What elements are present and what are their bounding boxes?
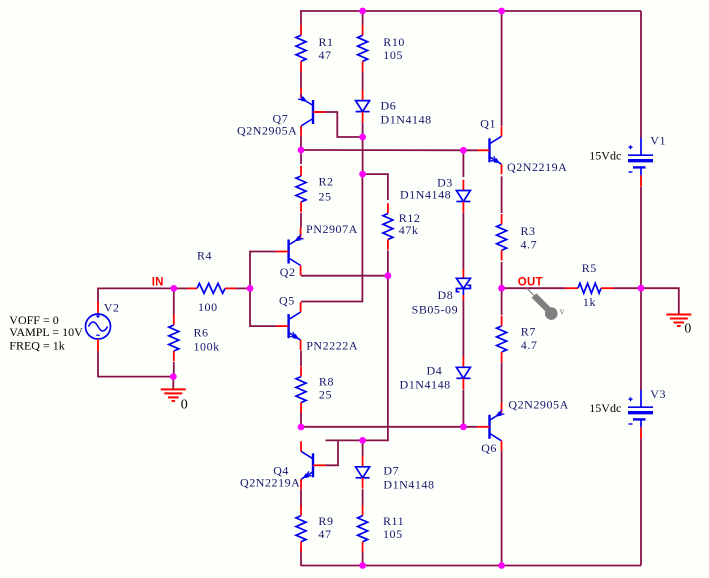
svg-text:R4: R4 bbox=[197, 248, 212, 262]
svg-text:R10: R10 bbox=[383, 35, 405, 49]
wire node to Q4 base net bbox=[326, 276, 388, 441]
svg-text:D1N4148: D1N4148 bbox=[381, 113, 432, 127]
svg-text:D8: D8 bbox=[438, 288, 454, 302]
wire Q7 base to D6 node bbox=[314, 112, 363, 137]
svg-text:15Vdc: 15Vdc bbox=[589, 149, 621, 163]
svg-text:D1N4148: D1N4148 bbox=[383, 478, 434, 492]
svg-text:47: 47 bbox=[319, 48, 332, 62]
voltage probe at OUT bbox=[527, 289, 534, 296]
wire D7 to R11 bbox=[362, 489, 364, 507]
diode D8 (schottky) bbox=[462, 269, 464, 278]
svg-text:R1: R1 bbox=[319, 35, 334, 49]
svg-text:R11: R11 bbox=[383, 514, 404, 528]
svg-text:Q2N2905A: Q2N2905A bbox=[508, 398, 568, 412]
source V2 (sine) bbox=[97, 302, 99, 315]
wire R6 to ground node bbox=[173, 362, 175, 377]
junction node 3 bbox=[170, 285, 177, 292]
wire D6 to node bbox=[362, 123, 364, 138]
svg-text:47: 47 bbox=[318, 527, 331, 541]
svg-text:R3: R3 bbox=[521, 224, 536, 238]
wire D3 to D8 bbox=[462, 213, 464, 270]
svg-text:R9: R9 bbox=[318, 514, 333, 528]
wire IN node to R4 bbox=[174, 287, 188, 289]
junction node 2 bbox=[498, 8, 505, 15]
wire V2 top to IN node bbox=[98, 288, 174, 301]
svg-text:D7: D7 bbox=[383, 464, 399, 478]
wire top rail bbox=[301, 10, 641, 12]
svg-text:IN: IN bbox=[152, 276, 164, 288]
wire R12 bottom to node bbox=[387, 251, 389, 276]
svg-text:25: 25 bbox=[319, 388, 332, 402]
svg-text:V2: V2 bbox=[104, 301, 120, 315]
wire D4 to Q6 base node bbox=[462, 390, 464, 427]
svg-text:FREQ = 1k: FREQ = 1k bbox=[9, 338, 64, 352]
wire R7 to Q6 emitter bbox=[501, 363, 503, 403]
svg-text:Q5: Q5 bbox=[279, 294, 295, 308]
svg-text:15Vdc: 15Vdc bbox=[589, 401, 621, 415]
svg-text:VAMPL = 10V: VAMPL = 10V bbox=[9, 325, 83, 339]
transistor Q5 bbox=[287, 314, 289, 338]
svg-text:Q2N2219A: Q2N2219A bbox=[240, 476, 300, 490]
svg-text:OUT: OUT bbox=[518, 276, 543, 288]
resistor R12 bbox=[387, 203, 389, 213]
svg-text:Q2: Q2 bbox=[280, 265, 296, 279]
resistor R10 bbox=[362, 25, 364, 35]
svg-text:R5: R5 bbox=[582, 261, 597, 275]
resistor R11 bbox=[362, 505, 364, 515]
svg-text:4.7: 4.7 bbox=[521, 338, 538, 352]
wire D3 top stub bbox=[462, 150, 464, 177]
resistor R3 bbox=[501, 214, 503, 224]
wire Q2 collector run bbox=[301, 275, 388, 277]
ground left bbox=[161, 388, 186, 390]
resistor R5 bbox=[565, 287, 578, 289]
svg-text:PN2222A: PN2222A bbox=[306, 339, 358, 353]
transistor Q1 bbox=[488, 138, 490, 162]
svg-text:D1N4148: D1N4148 bbox=[400, 378, 451, 392]
wire Q4 emitter to R9 bbox=[300, 490, 302, 508]
svg-text:SB05-09: SB05-09 bbox=[412, 302, 459, 316]
junction node 17 bbox=[498, 562, 505, 569]
svg-text:0: 0 bbox=[685, 320, 692, 335]
wire R8 to Q4 node bbox=[300, 411, 302, 427]
junction node 10 bbox=[460, 147, 467, 154]
wire right rail upper bbox=[640, 11, 642, 138]
resistor R8 bbox=[300, 366, 302, 376]
junction node 15 bbox=[638, 285, 645, 292]
svg-text:v: v bbox=[560, 307, 566, 318]
wire Q5 collector run bbox=[301, 174, 362, 301]
wire V2 bottom to ground node bbox=[98, 351, 173, 377]
svg-text:D6: D6 bbox=[381, 99, 397, 113]
svg-text:D1N4148: D1N4148 bbox=[400, 187, 451, 201]
svg-text:Q1: Q1 bbox=[480, 116, 496, 130]
wire Q4 base riser bbox=[326, 440, 339, 465]
svg-text:100k: 100k bbox=[194, 340, 220, 354]
svg-text:Q6: Q6 bbox=[481, 441, 497, 455]
wire bottom rail bbox=[301, 565, 641, 567]
svg-text:R6: R6 bbox=[194, 325, 209, 339]
wire node to R2 bbox=[300, 150, 302, 164]
resistor R6 bbox=[173, 315, 175, 325]
svg-text:Q2N2219A: Q2N2219A bbox=[507, 160, 567, 174]
wire Q4 node to Q6 base bbox=[301, 426, 477, 428]
junction node 5 bbox=[170, 373, 177, 380]
junction node 16 bbox=[359, 562, 366, 569]
wire mid node to V3 bbox=[640, 288, 642, 390]
wire ground stub left bbox=[172, 377, 174, 390]
diode D7 bbox=[362, 456, 364, 467]
wire R10 to D6 bbox=[362, 70, 364, 90]
svg-text:105: 105 bbox=[383, 48, 403, 62]
battery V3 bbox=[640, 390, 642, 408]
svg-text:R7: R7 bbox=[521, 324, 536, 338]
wire Q7 node to Q1 base bbox=[301, 149, 477, 151]
wire R4 to Q2/Q5 node bbox=[236, 287, 250, 289]
wire Q7 collector to node bbox=[300, 136, 302, 150]
svg-text:R8: R8 bbox=[319, 375, 334, 389]
junction node 14 bbox=[498, 285, 505, 292]
svg-text:D4: D4 bbox=[427, 364, 443, 378]
wire R12 branch bbox=[363, 174, 388, 200]
wire V3 to bottom rail bbox=[640, 439, 642, 566]
wire OUT node to R7 bbox=[501, 288, 503, 315]
transistor Q6 bbox=[488, 415, 490, 439]
diode D3 bbox=[462, 180, 464, 191]
junction node 4 bbox=[247, 285, 254, 292]
svg-text:Q2N2905A: Q2N2905A bbox=[237, 124, 297, 138]
wire mid node to right ground bbox=[641, 288, 679, 314]
wire D8 to D4 bbox=[462, 300, 464, 357]
wire rail to R10 bbox=[362, 10, 364, 25]
svg-text:105: 105 bbox=[383, 527, 403, 541]
svg-text:25: 25 bbox=[319, 190, 332, 204]
wire R5 to mid node bbox=[614, 287, 641, 289]
resistor R7 bbox=[501, 316, 503, 326]
wire Q1 emitter to R3 bbox=[501, 176, 503, 213]
transistor Q2 bbox=[287, 240, 289, 264]
transistor Q4 bbox=[312, 453, 314, 477]
svg-text:4.7: 4.7 bbox=[521, 238, 538, 252]
wire R1 to Q7 emitter bbox=[300, 70, 302, 88]
battery V1 bbox=[640, 138, 642, 156]
wire R11 to bottom rail bbox=[362, 550, 364, 566]
resistor R4 bbox=[187, 287, 197, 289]
svg-text:100: 100 bbox=[198, 300, 218, 314]
junction node 8 bbox=[359, 171, 366, 178]
wire Q5 emitter to R8 bbox=[300, 351, 302, 367]
wire R2 to Q2 emitter bbox=[300, 213, 302, 228]
junction node 9 bbox=[385, 272, 392, 279]
resistor R2 bbox=[300, 166, 302, 176]
svg-text:0: 0 bbox=[181, 397, 188, 412]
junction node 1 bbox=[359, 8, 366, 15]
svg-text:R2: R2 bbox=[319, 175, 334, 189]
wire rail to R1 bbox=[300, 10, 302, 25]
resistor R9 bbox=[300, 505, 302, 515]
wire R3 to OUT node bbox=[501, 262, 503, 288]
junction node 13 bbox=[298, 424, 305, 431]
svg-text:V1: V1 bbox=[650, 133, 666, 147]
junction node 7 bbox=[359, 134, 366, 141]
junction node 6 bbox=[298, 147, 305, 154]
transistor Q7 bbox=[312, 100, 314, 124]
svg-text:V3: V3 bbox=[650, 387, 666, 401]
diode D4 bbox=[462, 357, 464, 368]
resistor R1 bbox=[300, 25, 302, 35]
wire Q6 collector to bottom rail bbox=[501, 451, 503, 566]
wire Q1 collector to top rail bbox=[501, 11, 503, 126]
junction node 11 bbox=[460, 423, 467, 430]
wire V1 to mid node bbox=[640, 187, 642, 288]
diode D6 bbox=[362, 90, 364, 101]
wire OUT node to R5 bbox=[501, 287, 565, 289]
junction node 12 bbox=[359, 437, 366, 444]
svg-text:PN2907A: PN2907A bbox=[306, 222, 358, 236]
wire D6 node to R12 branch node bbox=[362, 137, 364, 174]
wire D7 node stub bbox=[362, 440, 364, 456]
wire IN node to R6 bbox=[173, 288, 175, 315]
ground right bbox=[666, 314, 691, 316]
wire Q2/Q5 base bus bbox=[250, 252, 277, 327]
wire R9 to bottom rail bbox=[300, 550, 302, 566]
svg-text:47k: 47k bbox=[399, 223, 419, 237]
svg-text:1k: 1k bbox=[583, 295, 596, 309]
